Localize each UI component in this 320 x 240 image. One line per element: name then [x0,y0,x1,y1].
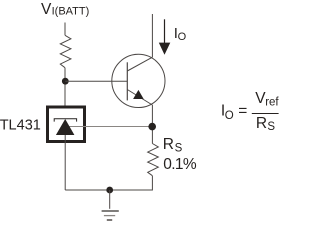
resistor (input resistor) [60,35,71,67]
emitter lead wire to R_S [151,105,153,144]
equation I_O = V_ref / R_S [221,90,280,133]
node A junction dot [62,78,69,85]
svg-text:O: O [225,110,234,122]
wire resistor to node A [64,68,66,106]
svg-text:0.1%: 0.1% [163,156,197,173]
transistor emitter arrow [133,90,144,99]
TL431 anode lead inside box to bottom rail [64,135,66,190]
collector lead wire [151,14,153,57]
I_O arrowhead [159,43,171,55]
wire from V_I(BATT) to resistor [64,23,66,36]
svg-text:R: R [256,115,267,132]
label I_O [174,25,187,43]
svg-text:=: = [238,103,247,120]
svg-text:I(BATT): I(BATT) [52,5,90,17]
R_S top node junction dot [148,123,156,131]
ground symbol [102,211,119,220]
svg-text:O: O [178,31,187,43]
svg-text:V: V [41,1,52,18]
svg-text:S: S [267,121,275,133]
svg-text:S: S [175,143,183,155]
node label V_I(BATT) [41,1,89,18]
transistor Q1 circle [112,54,165,107]
transistor collector diagonal [127,57,152,71]
ground stub wire [109,190,111,209]
wire TL431 reference to R_S top node [69,126,152,128]
svg-text:ref: ref [265,96,279,108]
I_O current arrow line [164,19,166,43]
bottom rail wire [65,176,152,190]
TL431 U1 box [48,107,85,142]
equation fraction bar [252,113,279,115]
TL431 triangle [56,119,75,135]
ground junction dot [106,187,113,194]
resistor R_S [148,144,159,176]
transistor emitter diagonal [127,90,152,106]
svg-text:R: R [163,136,174,153]
svg-text:TL431: TL431 [0,118,41,134]
wire node A to transistor base [65,80,127,82]
TL431 cathode bar [54,119,76,122]
label R_S [163,136,183,155]
transistor base bar [126,62,128,100]
